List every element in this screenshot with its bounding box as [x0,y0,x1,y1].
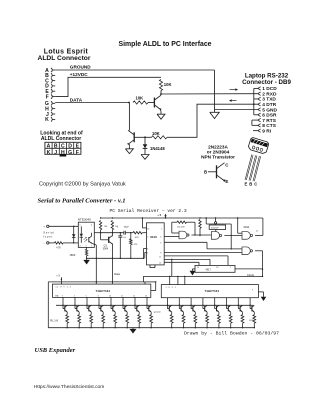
label 74HCT164 right [205,289,220,293]
IC U4 4017 box [195,265,235,272]
svg-text:1: 1 [161,228,162,230]
label Laptop RS-232 [245,72,289,79]
resistor 47K series [131,232,147,234]
svg-text:Simple ALDL to PC Interface: Simple ALDL to PC Interface [118,41,211,48]
terminal + input [43,225,49,229]
IC U2 4013 box [147,223,165,265]
light arrows [84,237,88,242]
wire +12vdc from pin F [55,77,161,96]
svg-text:DATA: DATA [70,98,83,103]
svg-text:5: 5 [86,295,87,297]
wire - input to resistor [49,242,55,244]
svg-text:4.7K: 4.7K [56,247,61,249]
gate U3b 4011 [211,232,221,240]
svg-text:10K: 10K [152,131,160,136]
svg-text:3 TXD: 3 TXD [262,97,276,103]
wire cascade SR1 to SR2 [144,281,157,290]
footer url [34,384,105,390]
transistor Q1 npn [154,96,161,111]
feedback resistor gateA [172,221,196,236]
svg-text:.0022uF: .0022uF [210,227,219,229]
diode 1N4148 [143,144,148,153]
svg-text:Data: Data [114,272,120,276]
svg-text:C: C [61,144,65,150]
connector pin H [45,106,55,112]
label 10K dtr [152,131,160,136]
label DATA [70,98,83,103]
svg-text:5 GND: 5 GND [262,107,277,113]
svg-text:K: K [47,150,51,156]
wire data from pin G [55,102,129,104]
wire emitter ground rail [48,327,254,329]
ground SR2 [261,296,267,301]
wire DTR pin4 run [167,104,258,137]
copyright text [39,180,126,187]
wire gateB out [224,234,242,236]
label Q1 3904 [103,245,109,251]
wire collector node to base [100,230,109,240]
transistors Q20-Q27 bank right [167,298,256,329]
svg-text:NPN Transistor: NPN Transistor [201,154,235,159]
resistor 750 from rail [99,221,101,230]
label 4013 [150,235,157,239]
label 45K [177,227,185,229]
svg-text:1,8 9 2: 1,8 9 2 [166,287,177,289]
credit Drawn by Bill Bowden [184,330,279,336]
svg-text:11: 11 [121,295,123,297]
wire Q1 emitter [160,110,162,112]
transistor Q2 npn mirrored [127,130,134,145]
svg-text:+: + [43,225,45,229]
label EBC [245,182,258,187]
node diode junction [144,136,146,138]
svg-text:Serial: Serial [43,230,54,234]
svg-text:Input: Input [43,235,53,239]
wire gateC out feedback [255,218,263,235]
label .01 [123,237,127,239]
svg-text:13: 13 [145,295,147,297]
label 4.7K [56,247,61,249]
wire collector to RXD pin 2 [161,93,258,95]
resistor 10K pull-up [159,80,162,95]
svg-text:4013: 4013 [150,235,157,239]
wire + input [49,225,78,227]
svg-text:14: 14 [197,267,199,269]
transistors Q10-Q17 bank left [62,297,152,328]
label 74HCT164 left [96,289,111,293]
wire ground from pin A [55,69,214,71]
svg-text:5: 5 [147,237,148,239]
wire base tie line [56,304,253,306]
svg-text:Q1: Q1 [104,245,108,248]
svg-text:K: K [45,117,49,123]
svg-text:.01: .01 [123,237,127,239]
ground Q2 emitter [125,147,133,154]
label 1N4148 [150,146,165,151]
svg-text:4: 4 [91,225,92,227]
resistor 1K from rail [111,221,113,230]
wire 4017 out [235,268,263,270]
wire gateA out [192,234,212,236]
DB9 pin 4 DTR [258,102,277,108]
wire bus drop SR1 clock [144,282,146,284]
svg-text:6 DSR: 6 DSR [262,113,277,119]
4013 bottom pins [149,265,155,269]
wire serial data vertical [171,259,173,276]
wire 4013 to 4017 b [164,259,210,266]
svg-text:12: 12 [133,295,135,297]
wire Q1 collector node [112,230,113,236]
svg-text:11: 11 [256,231,259,233]
DB9 pin 8 CTS [258,123,277,129]
connector pin A [45,68,55,74]
label Clock [247,273,255,277]
svg-text:10K: 10K [136,96,144,101]
svg-text:F: F [76,150,79,156]
transistor Q1 [109,235,113,244]
node 180K bottom [86,256,87,259]
svg-text:Https://www.ThesisScientist.co: Https://www.ThesisScientist.com [34,384,105,390]
wire data-clock bus [48,276,263,282]
svg-text:2: 2 [160,242,161,244]
label NTE3040 [78,218,91,222]
label .1 68pF [117,227,130,229]
wire Q2 collector up to data [128,103,130,131]
wire SR2 input drops [170,276,185,284]
svg-text:1 DCD: 1 DCD [262,86,277,92]
wire 4013 to gateD bottom [164,252,242,254]
wire 4013 pins to data node [143,249,147,259]
connector pin F [46,94,56,100]
DB9 pin 5 GND [258,107,278,113]
title text [118,41,211,48]
svg-text:10K: 10K [164,82,172,87]
svg-text:74HCT164: 74HCT164 [205,289,220,293]
transistor legend symbol [204,163,229,184]
svg-text:3904: 3904 [103,248,109,251]
svg-text:Serial to Parallel Converter -: Serial to Parallel Converter - v.1 [38,198,126,205]
ground 4017 [190,269,196,276]
svg-text:11: 11 [159,256,161,258]
label Looking at end of [40,131,83,143]
label Connector - DB9 [242,79,291,86]
optocoupler U1 box [78,222,94,247]
label 1K [115,226,118,228]
svg-text:7 RTS: 7 RTS [262,118,276,124]
arrow dtr direction left [229,99,237,102]
wire +5 rail [101,217,263,219]
svg-text:180K: 180K [69,253,75,257]
wire gateD out to clock [255,251,263,277]
label 47K [135,237,139,239]
label Data near wire2 [114,272,120,276]
svg-text:14: 14 [147,228,149,230]
connector pin G [45,101,55,107]
wire opto emitter to 180K [86,247,88,249]
heading Serial to Parallel Converter [38,198,126,205]
label GROUND [70,64,91,69]
wire emitter node run [87,257,144,259]
label 4017 [206,269,212,272]
svg-text:2: 2 [230,267,231,269]
label +12VDC [70,72,88,77]
connector pin B [45,73,55,79]
svg-text:Drawn by - Bill Bowden - 06/03: Drawn by - Bill Bowden - 06/03/97 [184,330,279,336]
node collector junction [160,93,162,95]
wire RI stub [253,130,258,132]
ground Q1 emitter [157,112,165,119]
svg-text:B: B [204,170,207,175]
svg-text:3: 3 [160,237,161,239]
svg-text:151 45K: 151 45K [177,227,185,229]
svg-text:.1: .1 [117,227,120,229]
U5 bottom pin numbers [55,295,147,297]
wire diode drop [144,137,146,144]
svg-text:1N4148: 1N4148 [150,146,165,151]
svg-text:1 8: 1 8 [216,267,218,269]
svg-text:7: 7 [149,267,150,269]
svg-text:ALDL Connector: ALDL Connector [37,55,90,62]
svg-text:4 DTR: 4 DTR [262,102,276,108]
svg-text:1: 1 [91,246,92,248]
svg-text:2 RXD: 2 RXD [262,91,277,97]
wire DB9 tie 1-4-6 [253,88,258,114]
label 10K pull-up [164,82,172,87]
wire rail to cap branch [206,217,232,249]
U6 top pin numbers [166,287,254,292]
ground rail center [130,328,137,334]
svg-text:6: 6 [147,249,148,251]
label 750 [104,226,108,228]
resistor 4.7K input [55,242,64,244]
DB9 pin 2 RXD [258,91,277,97]
IC U5 74HCT164 box [53,284,151,297]
power +5 tap [157,213,167,218]
svg-text:G: G [68,150,72,156]
svg-text:F: F [46,94,49,100]
wire Q2 emitter [128,144,130,147]
diode reverse protection [72,226,76,244]
svg-text:Connector - DB9: Connector - DB9 [242,79,291,86]
ground 180K [83,258,90,264]
svg-text:+ 5: + 5 [56,275,60,278]
svg-text:4017: 4017 [206,269,212,272]
4013 pin numbers right [159,228,162,264]
svg-text:-: - [44,241,45,245]
capacitor series .1 [101,231,131,235]
svg-text:+12VDC: +12VDC [70,72,88,77]
svg-text:+ 5: + 5 [157,213,161,217]
node cap junction [130,232,131,233]
svg-text:9: 9 [252,290,253,292]
table ALDL pinout view [45,142,81,156]
connector pin C [45,78,55,84]
label 4011 [243,225,249,229]
svg-text:NTE3040: NTE3040 [78,218,91,222]
svg-text:68pF: 68pF [124,227,130,229]
gate U3d 4011 [242,247,253,255]
wire SR2 gnd right [258,292,263,296]
resistor from rail to gateB [199,220,201,237]
svg-text:PC Serial Receiver – ver 2.3: PC Serial Receiver – ver 2.3 [110,208,187,214]
label RL8 right [249,320,254,322]
svg-text:13: 13 [159,262,161,264]
wire Q1 collector [160,94,162,95]
svg-text:4: 4 [147,252,148,254]
label 2N2223A or 2N3904 NPN Transistor [201,144,235,159]
svg-text:14 8 9 1,2: 14 8 9 1,2 [56,286,72,288]
svg-text:A: A [47,144,51,150]
gate pin numbers [256,231,259,233]
wire GND to pin5 [215,109,258,111]
gate U3a 4011 [172,231,189,239]
svg-text:750: 750 [104,226,108,228]
DB9 pin 6 DSR [258,113,277,119]
svg-text:J: J [54,150,57,156]
label ground small [154,310,161,313]
wire 10K to diode node [134,136,151,138]
svg-text:9: 9 [160,253,161,255]
label Lotus Esprit ALDL Connector [37,48,90,62]
svg-text:10: 10 [109,295,111,297]
LED inside opto [80,226,83,243]
wire opto emitter data line [96,245,97,284]
label 470 [134,244,138,246]
U5 top pin numbers [56,286,72,288]
label 10K base Q1 [136,96,144,101]
arrow data direction right [230,88,239,91]
wire Q1 emitter down [112,244,113,284]
svg-text:Copyright ©2000 by Sanjaya Vat: Copyright ©2000 by Sanjaya Vatuk [39,180,126,187]
svg-text:8: 8 [154,267,155,269]
connector pin D [45,84,55,90]
svg-text:3: 3 [62,295,63,297]
4017 top pin numbers [197,267,231,269]
gate U3c 4011 [238,218,253,239]
connector pin E [45,89,55,95]
wire 4013 to 4017 a [164,256,228,266]
wire opto collector out [94,232,100,234]
svg-text:E: E [76,144,80,150]
DB9 pin 1 DCD [258,86,277,92]
svg-text:470: 470 [134,244,138,246]
svg-text:8 CTS: 8 CTS [262,123,276,129]
ground main rail [210,70,220,119]
capacitor .01 shunt [118,232,122,259]
subheading PC Serial Receiver [110,208,187,214]
svg-text:ALDL Connector: ALDL Connector [41,136,81,142]
wire 4013 to gateD top [164,242,242,249]
label RL 1-8 left [50,319,58,323]
DB9 pin 3 TXD [258,97,277,103]
svg-text:E: E [225,179,228,184]
svg-text:5: 5 [80,225,81,227]
wire RTS-CTS loopback [252,120,258,125]
svg-text:6: 6 [98,295,99,297]
label Serial Input [43,230,54,238]
wire 10K to Q1 base [148,102,154,104]
resistor 10K base Q1 [133,101,148,104]
phototransistor in opto [89,233,97,245]
svg-text:2: 2 [86,246,87,248]
wire rail branch into 4013 [142,218,146,228]
node data junction [128,102,130,104]
wire left ground bus [47,282,49,328]
svg-text:ground: ground [154,310,161,313]
svg-text:4: 4 [74,295,75,297]
capacitor timing box [209,218,225,231]
svg-text:E B C: E B C [245,182,258,187]
wire 4013 q to gateA [164,235,179,237]
terminal - input [44,241,49,245]
resistor 180K [85,249,87,256]
opto pin numbers [80,225,93,248]
wire 4013 to 4017 c [164,262,199,265]
power +5 SR1 [56,275,62,284]
wire resistor to opto [63,242,78,244]
connector pin J [46,112,55,118]
svg-text:3: 3 [80,246,81,248]
4013 pin numbers left [147,228,149,254]
resistor 470 shunt [130,233,132,259]
svg-text:9 RI: 9 RI [262,128,271,134]
svg-text:47K: 47K [135,237,139,239]
ground diode [141,153,149,159]
svg-text:74HCT164: 74HCT164 [96,289,111,293]
resistor 10K from DTR [152,136,168,139]
TO-92 package drawing [245,137,269,181]
svg-text:D: D [68,144,72,150]
node rail dots [100,217,239,218]
svg-text:USB Expander: USB Expander [35,347,76,354]
svg-text:B: B [54,144,58,150]
connector pin K [45,117,55,123]
IC U6 74HCT164 box [161,285,258,298]
svg-text:4011: 4011 [243,225,249,229]
svg-text:RL 1-8: RL 1-8 [50,319,58,323]
DB9 pin 7 RTS [258,118,277,124]
label 180K [69,253,75,257]
svg-text:C: C [225,163,229,168]
heading USB Expander [35,347,76,354]
DB9 pin 9 RI [258,128,272,134]
svg-text:GROUND: GROUND [70,64,91,69]
